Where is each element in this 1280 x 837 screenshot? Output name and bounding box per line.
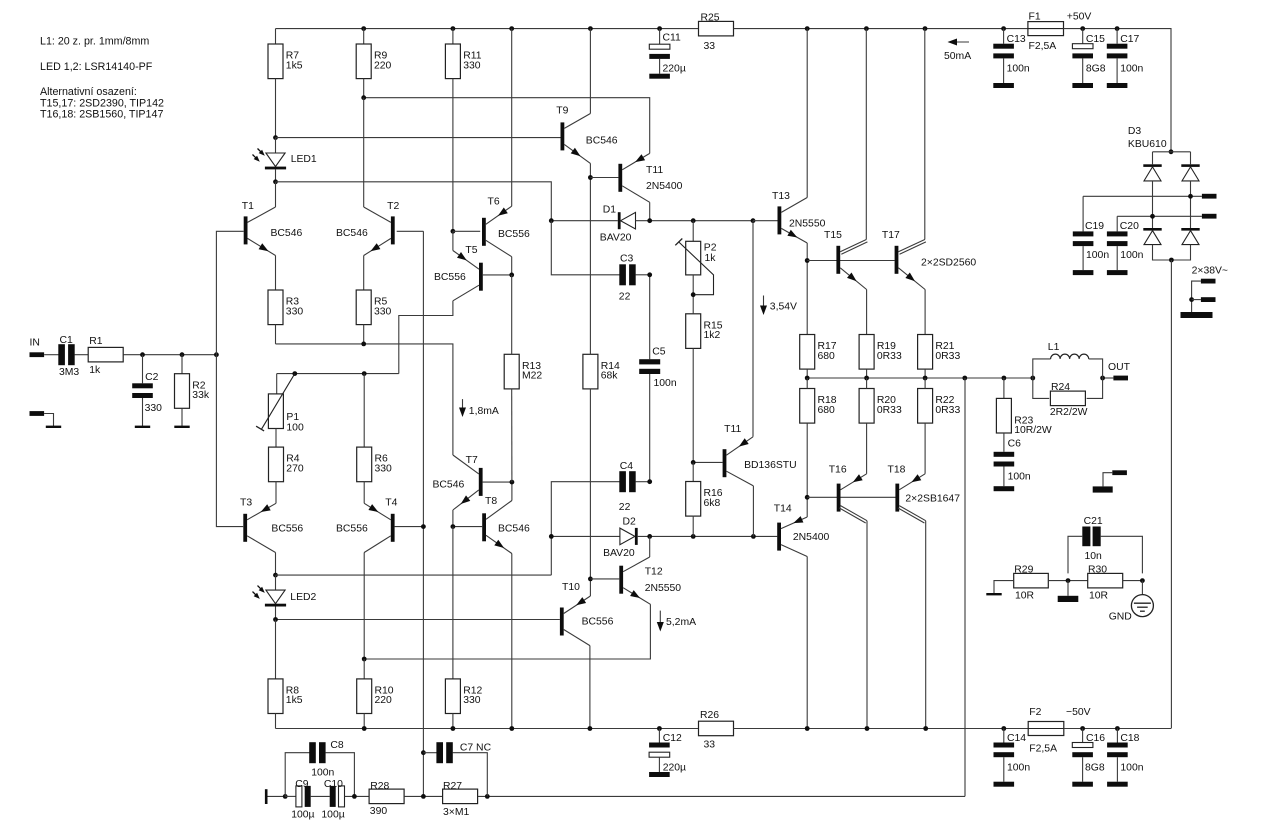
node: bottom rail / T18 collector [923, 726, 928, 731]
wire: bridge bottom [1153, 245, 1191, 260]
svg-text:BC556: BC556 [582, 616, 614, 627]
svg-text:220µ: 220µ [663, 63, 686, 74]
ground below C16 [1072, 782, 1093, 787]
svg-text:C4: C4 [620, 461, 634, 472]
svg-text:D3: D3 [1128, 126, 1142, 137]
svg-text:10R: 10R [1015, 590, 1035, 601]
annotation: 1,8mA current arrow [459, 399, 499, 417]
svg-text:L1: L1 [1048, 342, 1060, 353]
svg-text:330: 330 [375, 463, 393, 474]
terminal: transformer winding end 1 [1201, 279, 1216, 284]
svg-text:Alternativní osazení:: Alternativní osazení: [40, 86, 137, 98]
resistor R4 [269, 447, 304, 482]
ground below C13 [993, 83, 1014, 88]
wire: T14 collector to bottom rail [806, 557, 808, 729]
svg-text:3×M1: 3×M1 [443, 807, 470, 818]
svg-text:T2: T2 [387, 201, 399, 212]
ground at R29 [986, 593, 1001, 595]
terminal: speaker return [1112, 470, 1127, 475]
resistor R9 [356, 44, 391, 79]
capacitor C1 3M3 [58, 344, 74, 365]
wire: R13 bottom lead [511, 389, 513, 482]
resistor R12 [445, 679, 482, 714]
wire: C13 bottom lead [1003, 58, 1005, 83]
wire: C14 bottom lead [1003, 757, 1005, 782]
svg-text:330: 330 [374, 306, 392, 317]
wire: D1 to T13 base [636, 220, 754, 222]
node: LED2 anode / T3 collector [273, 573, 278, 578]
svg-text:F2: F2 [1029, 707, 1041, 718]
svg-text:50mA: 50mA [944, 51, 971, 62]
terminal: input IN [30, 352, 45, 357]
svg-text:68k: 68k [601, 371, 619, 382]
wire: C7 right lead [453, 753, 488, 797]
svg-text:C3: C3 [620, 253, 634, 264]
capacitor C2 330 [132, 383, 153, 398]
wire: feedback riser from output rail [964, 378, 966, 796]
wire: AC input 2 [1117, 215, 1202, 217]
wire: T5 emitter riser [452, 231, 454, 250]
wire: T18 collector to bottom rail [925, 521, 927, 729]
svg-text:680: 680 [818, 405, 836, 416]
transistor T16 2SB1647 [837, 484, 841, 512]
svg-text:T3: T3 [240, 498, 252, 509]
node: output rail / feedback takeoff [962, 376, 967, 381]
diode D3c (bridge) [1143, 228, 1161, 245]
ground below C14 [994, 782, 1015, 787]
diode D2 BAV20 [620, 528, 638, 545]
wire: T7 emitter to base line [452, 510, 454, 527]
svg-text:D1: D1 [603, 205, 617, 216]
wire: C2 bottom lead [142, 398, 144, 426]
svg-text:220: 220 [375, 695, 393, 706]
wire: C11 top lead [659, 29, 661, 45]
svg-text:KBU610: KBU610 [1128, 139, 1167, 150]
transistor T10 BC556 [560, 608, 564, 636]
wire: C12 top lead [658, 729, 660, 743]
resistor R26 [699, 710, 734, 750]
wire: T4 base to feedback column [395, 526, 424, 528]
svg-text:OUT: OUT [1108, 362, 1131, 373]
node: T7 base / T8 collector / R13 bottom [510, 480, 515, 485]
wire: C20 bottom lead [1116, 246, 1118, 270]
svg-text:1k5: 1k5 [286, 695, 303, 706]
ground at input [46, 426, 61, 428]
svg-text:T6: T6 [488, 197, 500, 208]
wire: T12 base [590, 578, 619, 580]
node: R30 / C21 / GND [1140, 578, 1145, 583]
capacitor C15 8G8 electrolytic [1072, 44, 1093, 59]
svg-text:330: 330 [463, 60, 481, 71]
svg-text:P2: P2 [704, 242, 717, 253]
terminal: OUT [1113, 376, 1128, 381]
transistor T7 BC546 [479, 468, 483, 496]
wire: R20 bottom to T16 emitter [866, 423, 868, 474]
wire: T17 emitter to R21 [924, 290, 926, 335]
wire: R20 top lead [866, 378, 868, 389]
wire: R10 top lead [363, 659, 365, 679]
node: D1 line / T11 lower emitter riser [751, 218, 756, 223]
wire: C2 top lead [142, 355, 144, 384]
node: bottom rail / R10 [362, 726, 367, 731]
wire: R28 to R27 [404, 795, 442, 797]
node: center tap junction [1189, 297, 1194, 302]
wire: bridge left top lead [1152, 152, 1154, 165]
resistor R14 [583, 354, 620, 389]
node: top rail / T9 collector [588, 26, 593, 31]
ground: R29/R30 junction [1058, 596, 1079, 602]
inductor L1 [1033, 354, 1103, 378]
capacitor C21 10n [1082, 527, 1100, 547]
wire: T15 collector riser [865, 29, 867, 240]
annotation: 3,54V arrow [760, 296, 797, 316]
wire: top rail left of R25 [276, 28, 699, 30]
svg-text:D2: D2 [623, 516, 637, 527]
node: T9 emitter / T11 base / R14 [588, 175, 593, 180]
diode D1 BAV20 [618, 212, 636, 229]
wire: top rail F1 to bridge + [1064, 29, 1172, 152]
transistor T8 BC546 [482, 513, 486, 541]
wire: C8 left riser [285, 753, 309, 797]
svg-text:2N5400: 2N5400 [646, 181, 683, 192]
wire: R29 to R30 [1048, 580, 1087, 582]
node: LED2 cathode / T10 base line [273, 617, 278, 622]
transistor T3 BC556 [243, 514, 247, 542]
svg-text:2N5400: 2N5400 [793, 532, 830, 543]
capacitor C19 100n [1073, 231, 1094, 246]
node: bottom rail / C12 [657, 726, 662, 731]
svg-text:330: 330 [286, 306, 304, 317]
capacitor C8 100n [309, 742, 325, 763]
LED LED2 [253, 586, 287, 607]
svg-text:100n: 100n [1007, 762, 1030, 773]
svg-text:BC546: BC546 [336, 228, 368, 239]
wire: R3 bottom lead [275, 325, 277, 344]
wire: T11 lower base [693, 461, 722, 463]
svg-text:T17: T17 [882, 230, 900, 241]
wire: T11 lower emitter riser [752, 221, 754, 437]
wire: R9 top lead [363, 29, 365, 44]
wire: T16/T18 base line [807, 496, 895, 498]
terminal: input ground [30, 411, 45, 416]
wire: T12 emitter to R10 line [364, 604, 650, 659]
wire: R24 right lead [1087, 378, 1103, 398]
svg-text:2N5550: 2N5550 [645, 583, 682, 594]
wire: T5 collector to R6 line [399, 301, 453, 374]
wire: T6 emitter riser [511, 29, 513, 207]
wire: P1 top lead [276, 374, 278, 394]
wire: C5 top lead [649, 275, 651, 359]
node: bottom rail / T10 collector [588, 726, 593, 731]
svg-text:BC546: BC546 [271, 228, 303, 239]
wire: terminal to C9 [268, 795, 286, 797]
wire: C11 bottom lead [659, 59, 661, 74]
transistor T2 BC546 [391, 216, 395, 244]
wire: R1 to input node [123, 354, 216, 356]
resistor R21 [918, 335, 961, 370]
wire: center tap 2 [1192, 299, 1201, 301]
transistor T5 BC556 [479, 263, 483, 291]
ground below R2 [174, 426, 189, 428]
svg-text:6k8: 6k8 [704, 498, 721, 509]
svg-text:M22: M22 [522, 371, 542, 382]
wire: R2 bottom lead [181, 408, 183, 426]
terminal: transformer AC2 [1202, 214, 1217, 219]
wire: T15/T17 base line [807, 260, 894, 262]
wire: bridge top [1153, 151, 1191, 153]
svg-text:1,8mA: 1,8mA [469, 406, 499, 417]
svg-text:LED 1,2: LSR14140-PF: LED 1,2: LSR14140-PF [40, 61, 153, 73]
wire: T11 collector to D1 line [649, 202, 651, 220]
node: R15 / R16 / T11 base [691, 460, 696, 465]
node: T13 emitter / T15-T17 base line [805, 258, 810, 263]
svg-text:1k: 1k [705, 253, 717, 264]
wire: LED1 anode to T9 base [276, 137, 561, 139]
svg-text:0R33: 0R33 [935, 405, 960, 416]
transistor T4 BC556 [391, 514, 395, 542]
wire: bottom rail left of R26 [276, 728, 699, 730]
svg-text:100n: 100n [1007, 64, 1030, 75]
wire: IN to C1 [44, 354, 59, 356]
node: feedback column / T4 base [421, 524, 426, 529]
svg-text:22: 22 [619, 502, 631, 513]
wire: T9 emitter lead [589, 163, 591, 177]
svg-text:+50V: +50V [1067, 12, 1092, 23]
terminal: transformer winding end 2 [1201, 297, 1216, 302]
resistor R30 [1088, 573, 1123, 588]
wire: T2 collector riser [363, 98, 365, 207]
capacitor C7 (NC) [436, 742, 452, 763]
wire: R4 to T3 emitter [275, 482, 277, 504]
wire: T17 collector riser [924, 29, 926, 240]
capacitor C9 100u [296, 786, 311, 807]
wire: R16 top lead [692, 462, 694, 482]
wire: T13 emitter to R17 [806, 243, 808, 335]
svg-text:100n: 100n [1086, 250, 1109, 261]
ground: transformer center tap [1181, 312, 1213, 318]
wire: R12 bottom lead [452, 714, 454, 729]
svg-text:390: 390 [370, 806, 388, 817]
svg-text:C8: C8 [330, 740, 344, 751]
node: D2 line / C4 riser [549, 534, 554, 539]
wire: LED1 cathode to D1 line [276, 182, 552, 221]
capacitor C3 22 [619, 264, 635, 285]
wire: R19 to output rail [866, 369, 868, 378]
potentiometer P1 100 [256, 374, 295, 431]
node: R29/R30 junction / C21 [1066, 578, 1071, 583]
wire: T3 base [216, 355, 243, 527]
wire: D1 anode line [551, 220, 618, 222]
node: bottom rail / C18 [1115, 726, 1120, 731]
wire: P1/R6 top line [277, 373, 399, 375]
capacitor C17 100n [1107, 44, 1128, 59]
wire: bridge right top lead [1190, 152, 1192, 165]
wire: C10 to R28 [345, 795, 370, 797]
wire: center tap 1 [1192, 281, 1201, 312]
node: bottom rail / C14 [1001, 726, 1006, 731]
wire: R21 to output rail [924, 369, 926, 378]
svg-text:C12: C12 [663, 733, 682, 744]
wire: C14 top lead [1003, 729, 1005, 743]
svg-text:C16: C16 [1086, 733, 1105, 744]
svg-text:C17: C17 [1120, 34, 1139, 45]
ground symbol GND (circle earth) [1131, 595, 1153, 617]
node: input to T1/T3 bases [214, 352, 219, 357]
ground below C18 [1107, 782, 1128, 787]
resistor R24 [1050, 382, 1088, 418]
node: R11 / T5 emitter / T6 base [451, 229, 456, 234]
svg-text:T16: T16 [829, 465, 847, 476]
capacitor C5 100n [639, 359, 660, 374]
svg-text:33: 33 [704, 41, 716, 52]
svg-text:T10: T10 [562, 582, 580, 593]
ground below C19 [1073, 270, 1094, 275]
wire: R9 to T11 emitter [364, 98, 650, 154]
wire: R8 bottom lead [275, 714, 277, 729]
wire: T6 collector to T5 base node [511, 257, 513, 275]
wire: C21 right lead [1101, 536, 1143, 573]
node: top rail / C13 [1001, 26, 1006, 31]
svg-text:C19: C19 [1085, 221, 1104, 232]
resistor R29 [1014, 573, 1049, 588]
svg-text:1k2: 1k2 [704, 330, 721, 341]
node: bottom rail / T16 collector [865, 726, 870, 731]
node: C4 / C5 column [647, 479, 652, 484]
node: C3 / C5 column [647, 272, 652, 277]
svg-text:2×2SB1647: 2×2SB1647 [905, 494, 960, 505]
diode D3b (bridge) [1181, 164, 1199, 181]
node: top rail / R11 [451, 26, 456, 31]
diode D3d (bridge) [1181, 228, 1199, 245]
svg-text:BC546: BC546 [433, 480, 465, 491]
wire: T7 base [483, 481, 512, 483]
wire: T15 emitter to R19 [866, 290, 868, 335]
resistor R18 [800, 389, 837, 424]
ground below C6 [994, 486, 1015, 491]
svg-text:2R2/2W: 2R2/2W [1050, 407, 1088, 418]
wire: input ground lead [44, 414, 53, 427]
terminal: transformer AC1 [1202, 194, 1217, 199]
wire: R18 top lead [806, 378, 808, 389]
svg-text:R27: R27 [443, 781, 462, 792]
ground below C2 [135, 426, 150, 428]
svg-text:8G8: 8G8 [1086, 64, 1106, 75]
svg-text:BC556: BC556 [336, 523, 368, 534]
wire: feedback column T2/T4 bases to C7 [422, 231, 424, 752]
wire: P1 to R4 [275, 429, 277, 448]
wire: R30 right lead [1123, 580, 1143, 582]
capacitor C13 100n [993, 44, 1014, 59]
capacitor C11 220u electrolytic [649, 44, 670, 59]
wire: C6 bottom lead [1003, 467, 1005, 487]
svg-text:C20: C20 [1120, 221, 1139, 232]
capacitor C16 8G8 electrolytic [1072, 743, 1093, 758]
wire: R12 top lead from T8 base node [452, 527, 454, 679]
resistor R1 [88, 336, 123, 376]
node: output rail / R23 [1002, 376, 1007, 381]
svg-text:220µ: 220µ [663, 762, 686, 773]
svg-text:T9: T9 [556, 105, 568, 116]
svg-text:100µ: 100µ [321, 809, 344, 820]
node: D2 line / T11 lower collector [751, 534, 756, 539]
svg-text:33k: 33k [192, 390, 210, 401]
svg-text:100n: 100n [311, 768, 334, 779]
wire: C9 to C10 [311, 795, 330, 797]
svg-text:T13: T13 [772, 191, 790, 202]
node: top rail / C11 [657, 26, 662, 31]
potentiometer P2 1k [675, 239, 713, 295]
svg-text:T18: T18 [888, 465, 906, 476]
wire: T2 base to feedback column [397, 230, 424, 232]
wire: C3 right lead [635, 274, 649, 276]
transistor T12 2N5550 [619, 566, 623, 594]
wire: C15 bottom lead [1082, 58, 1084, 83]
wire: T16 collector to bottom rail [866, 521, 868, 729]
node: AC2 / bridge left [1150, 214, 1155, 219]
capacitor C10 100u [330, 786, 345, 807]
node: output rail / L1 R24 right [1100, 376, 1105, 381]
node: feedback junction R28/R27 [421, 794, 426, 799]
svg-text:33: 33 [704, 739, 716, 750]
fuse F2 [1028, 722, 1064, 736]
wire: R6 to T4 emitter [363, 482, 365, 504]
capacitor C18 100n [1107, 743, 1128, 758]
svg-text:2×2SD2560: 2×2SD2560 [921, 257, 976, 268]
svg-text:R25: R25 [701, 12, 720, 23]
node: LED1 anode / T9 base line [273, 135, 278, 140]
svg-text:R1: R1 [89, 336, 103, 347]
node: bridge + junction [1169, 149, 1174, 154]
wire: C18 bottom lead [1116, 757, 1118, 782]
svg-text:2N5550: 2N5550 [789, 219, 826, 230]
svg-text:BC556: BC556 [271, 523, 303, 534]
wire: T11 base [590, 177, 618, 179]
wire: -50V rail right side [1170, 260, 1172, 729]
transistor T17 2SD2560 [895, 246, 899, 274]
node: LED1 cathode / T1 collector [273, 179, 278, 184]
svg-text:−50V: −50V [1066, 707, 1091, 718]
svg-text:C5: C5 [652, 346, 666, 357]
svg-text:22: 22 [619, 292, 631, 303]
node: output rail / R21 R22 [923, 376, 928, 381]
node: AC1 / bridge right [1188, 194, 1193, 199]
svg-text:C7 NC: C7 NC [460, 742, 492, 753]
svg-text:GND: GND [1109, 612, 1132, 623]
node: top rail / T13 collector [805, 26, 810, 31]
wire: C8 right riser [325, 753, 354, 797]
wire: R7 bottom lead [275, 79, 277, 138]
svg-text:T4: T4 [385, 498, 397, 509]
wire: T6 base [453, 230, 480, 232]
wire: T1 collector riser [275, 182, 277, 207]
svg-text:330: 330 [145, 403, 163, 414]
wire: C16 top lead [1082, 729, 1084, 743]
wire: LED2 cathode lead [275, 607, 277, 620]
wire: T8 emitter to bottom rail [511, 554, 513, 729]
wire: bridge left mid [1152, 181, 1154, 228]
ground: speaker return [1093, 486, 1113, 492]
svg-text:R26: R26 [700, 710, 719, 721]
svg-text:3,54V: 3,54V [770, 302, 797, 313]
svg-text:T12: T12 [645, 567, 663, 578]
wire: T3 collector to LED2 [275, 553, 277, 576]
svg-text:0R33: 0R33 [935, 351, 960, 362]
resistor R6 [357, 447, 392, 482]
svg-text:270: 270 [286, 463, 304, 474]
capacitor C12 220u electrolytic [649, 743, 670, 758]
svg-text:LED1: LED1 [291, 154, 317, 165]
wire: R14 top lead from T9/T10 emitters [589, 178, 591, 355]
